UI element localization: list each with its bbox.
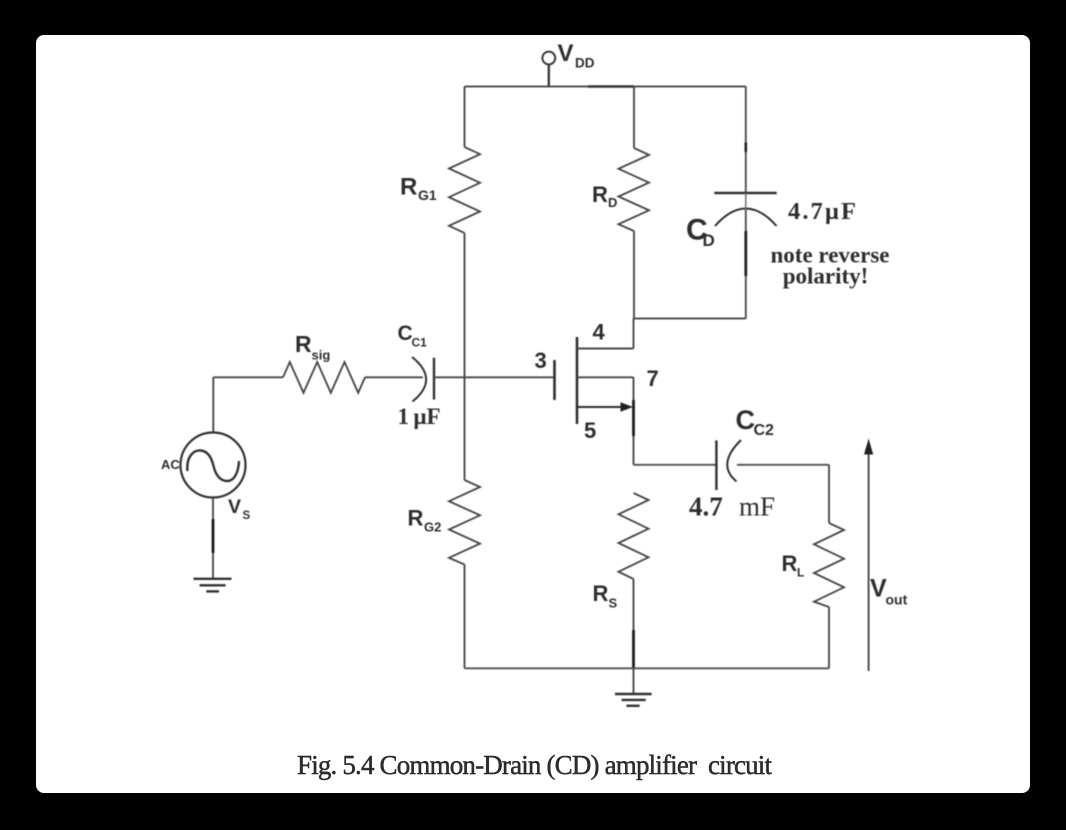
svg-text:C: C [736, 405, 756, 435]
wire: from VS up-left corner to Rsig [213, 376, 283, 378]
pin label 7 [647, 366, 659, 391]
svg-text:1 µF: 1 µF [398, 404, 441, 429]
transistor Q1 bulk arrow line [577, 406, 623, 408]
wire: CC1 to gate (crosses RG node) [434, 376, 555, 378]
svg-text:C: C [398, 322, 413, 345]
wire: dark segment on VS bottom lead [212, 519, 215, 553]
label 4.7uF [788, 198, 856, 225]
resistor Rsig [283, 362, 365, 393]
svg-text:R: R [295, 331, 312, 357]
ground (main) bar 2 [622, 699, 646, 701]
pin label 5 [584, 418, 596, 443]
resistor RG2 [449, 480, 480, 565]
wire: drain node horizontal to CD branch [634, 318, 746, 320]
wire: drain vertical to drain node [633, 319, 635, 349]
svg-text:R: R [592, 182, 608, 207]
capacitor CC1 curved plate [412, 357, 426, 402]
source VS circle [181, 433, 246, 498]
svg-text:7: 7 [647, 366, 659, 391]
wire: dark segment on CD bottom lead [744, 231, 747, 276]
label CC1 [398, 322, 428, 350]
label Vout [870, 575, 908, 608]
resistor RG1 [449, 147, 480, 233]
svg-text:5: 5 [584, 418, 596, 443]
wire: VS bottom lead [212, 498, 214, 579]
ground (VS) bar 2 [200, 584, 226, 586]
wire: RG2 bottom lead to ground rail [464, 565, 466, 669]
wire: darker overlap segment on supply rail [588, 85, 634, 88]
label VS [228, 496, 251, 522]
resistor RS [619, 493, 649, 579]
svg-text:R: R [408, 506, 424, 531]
ground (VS) bar 1 [194, 578, 232, 580]
svg-text:4.7: 4.7 [689, 492, 723, 522]
wire: RS bottom lead to ground rail [633, 579, 635, 668]
wire: bottom ground rail [465, 667, 830, 669]
pin label 3 [535, 348, 547, 373]
resistor RL [814, 523, 844, 607]
svg-text:R: R [782, 551, 798, 576]
wire: CD top lead [745, 87, 747, 194]
svg-text:3: 3 [535, 348, 547, 373]
wire: RL top lead [828, 465, 830, 523]
svg-text:C1: C1 [412, 336, 428, 350]
wire: RG2 top lead from gate node [464, 377, 466, 480]
Vout arrow shaft [868, 453, 870, 672]
wire: RG1 bottom lead down to gate node [464, 233, 466, 377]
pin label 4 [593, 320, 606, 345]
VS sine symbol [187, 450, 239, 481]
wire: Rsig to CC1 [365, 376, 423, 378]
svg-text:D: D [608, 195, 617, 210]
svg-text:polarity!: polarity! [783, 264, 869, 289]
label RD [592, 182, 617, 210]
ground (main) bar 1 [615, 693, 652, 695]
wire: CD bottom lead [745, 209, 747, 319]
wire: source vertical down to output node [633, 377, 635, 465]
svg-text:S: S [609, 596, 618, 611]
svg-text:4: 4 [593, 320, 606, 345]
Vout arrowhead [864, 439, 873, 455]
capacitor CC2 straight plate [715, 440, 717, 490]
capacitor CD straight plate [714, 192, 776, 195]
wire: VDD top supply rail [465, 86, 746, 88]
transistor Q1 drain lead [577, 348, 634, 350]
label RG2 [408, 506, 442, 535]
svg-text:R: R [400, 174, 417, 201]
wire: VS top lead [212, 377, 214, 433]
transistor Q1 source lead [577, 376, 634, 378]
transistor Q1 bulk arrowhead [621, 402, 634, 412]
note text: note reverse polarity! [771, 243, 890, 289]
wire: dark tick on CD top lead [744, 143, 747, 153]
label 1uF [398, 404, 441, 429]
svg-text:R: R [593, 581, 609, 606]
wire: output node to CC2 [634, 464, 717, 466]
label RL [782, 551, 805, 580]
svg-text:4.7µF: 4.7µF [788, 198, 856, 225]
transistor Q1 channel bar [576, 337, 579, 424]
wire: dark segment above ground rail [632, 630, 635, 668]
label RG1 [400, 174, 437, 204]
ground (main) stem [633, 668, 635, 694]
svg-text:DD: DD [575, 56, 595, 71]
wire: CD dielectric gap faint lead [745, 193, 747, 209]
wire: RG1 top lead [464, 87, 466, 148]
label RS [593, 581, 618, 611]
transistor Q1 gate bar [553, 360, 556, 400]
svg-text:out: out [886, 592, 908, 608]
ground (VS) bar 3 [206, 590, 219, 592]
svg-text:Fig. 5.4 Common-Drain (CD) amp: Fig. 5.4 Common-Drain (CD) amplifier cir… [297, 750, 772, 780]
svg-text:G2: G2 [424, 520, 441, 535]
label CD [686, 214, 715, 251]
label 4.7 mF [689, 492, 775, 522]
svg-text:L: L [797, 566, 804, 580]
svg-text:mF: mF [739, 492, 775, 522]
label VDD [558, 40, 595, 71]
label AC [161, 457, 180, 472]
VDD terminal circle [542, 52, 555, 65]
VDD terminal stub wire [548, 65, 550, 87]
svg-text:V: V [558, 40, 574, 67]
label Rsig [295, 331, 330, 363]
label CC2 [736, 405, 775, 439]
wire: CC2 to RL top [737, 464, 829, 466]
wire: RD top lead [633, 87, 635, 149]
svg-text:S: S [243, 510, 251, 522]
capacitor CD curved plate [715, 209, 777, 227]
svg-text:C2: C2 [754, 422, 775, 439]
ground (main) bar 3 [626, 705, 639, 707]
svg-text:sig: sig [312, 348, 331, 363]
svg-text:G1: G1 [418, 187, 437, 203]
svg-text:D: D [703, 231, 715, 250]
wire: dark segment on source vertical [632, 400, 635, 436]
wire: RL bottom lead [828, 607, 830, 668]
wire: RD bottom lead to drain node [633, 231, 635, 319]
svg-text:AC: AC [161, 457, 180, 472]
capacitor CC1 straight plate [433, 358, 435, 400]
capacitor CC2 curved plate [727, 440, 741, 482]
resistor RD [619, 148, 650, 231]
svg-text:V: V [870, 575, 887, 603]
svg-text:V: V [228, 496, 241, 518]
